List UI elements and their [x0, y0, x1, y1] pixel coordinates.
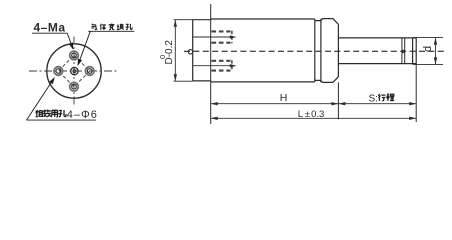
svg-text:D-0.2: D-0.2	[164, 40, 175, 65]
svg-text:4–Φ6: 4–Φ6	[67, 109, 98, 121]
svg-text:S:: S:	[369, 94, 378, 105]
svg-text:H: H	[280, 92, 288, 104]
svg-text:0: 0	[158, 55, 167, 59]
svg-text:4–Ma: 4–Ma	[34, 21, 66, 35]
svg-text:L±0.3: L±0.3	[298, 109, 325, 120]
svg-text:d: d	[422, 46, 434, 52]
